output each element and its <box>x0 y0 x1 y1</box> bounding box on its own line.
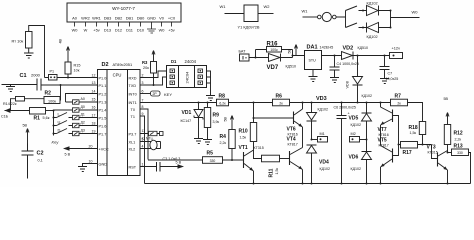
svg-text:КТ817: КТ817 <box>379 143 389 147</box>
wire row16 <box>54 109 98 111</box>
svg-text:P1.3: P1.3 <box>99 101 107 105</box>
svg-text:Key: Key <box>52 140 60 145</box>
wire TXD to EEPROM <box>140 77 167 85</box>
wire VT3 collector to R13 to rail <box>448 153 471 184</box>
resistor R15 <box>65 62 71 74</box>
svg-text:VD6: VD6 <box>349 155 359 161</box>
wire VT2 base <box>254 117 294 119</box>
svg-text:C1: C1 <box>20 73 27 79</box>
wire R14 left down to R1 line <box>11 99 16 111</box>
svg-text:RXD: RXD <box>129 77 137 81</box>
terminal M2 <box>350 137 360 143</box>
wire W1 to sensor <box>303 16 318 18</box>
svg-text:18: 18 <box>92 122 96 126</box>
svg-text:R6: R6 <box>276 94 283 100</box>
wire VT1 emitter to rail <box>253 171 255 184</box>
svg-text:КТ816: КТ816 <box>379 133 389 137</box>
svg-text:8: 8 <box>142 105 144 109</box>
svg-text:5В: 5В <box>288 48 292 53</box>
svg-text:1,5к: 1,5к <box>275 168 279 175</box>
svg-text:КД102: КД102 <box>367 2 378 6</box>
svg-text:P1.5: P1.5 <box>99 117 107 121</box>
svg-text:VD8: VD8 <box>346 81 350 88</box>
svg-text:С1Б: С1Б <box>1 115 9 119</box>
svg-text:DB3: DB3 <box>104 16 112 21</box>
svg-text:R4: R4 <box>220 134 227 140</box>
resistor R3 <box>151 62 157 74</box>
DA1 ground <box>309 70 318 82</box>
wire VT1 collector to R11 <box>254 150 262 159</box>
wire R2 right up to line13 <box>59 85 62 100</box>
capacitor C7 <box>380 56 390 84</box>
svg-text:P1.7: P1.7 <box>99 133 107 137</box>
resistor R16 <box>267 47 282 53</box>
wire EEPROM right to ground <box>206 71 215 101</box>
diode box row18 <box>73 123 80 127</box>
svg-text:КД102: КД102 <box>351 123 362 127</box>
svg-text:2к: 2к <box>397 102 401 106</box>
switch D <box>54 129 98 134</box>
svg-text:TXD: TXD <box>129 84 137 88</box>
svg-text:VD7: VD7 <box>267 65 279 71</box>
svg-text:КД102: КД102 <box>362 94 373 98</box>
svg-text:R11: R11 <box>269 168 275 177</box>
diode VD8 <box>353 56 363 103</box>
wire RXD to EEPROM <box>140 71 167 78</box>
svg-text:T1: T1 <box>131 115 135 119</box>
motor symbol M <box>318 12 337 21</box>
MCU D2 box <box>98 70 141 176</box>
svg-text:INT0: INT0 <box>129 93 137 97</box>
svg-text:P1.2: P1.2 <box>99 93 107 97</box>
svg-text:D13: D13 <box>104 28 111 33</box>
svg-text:6,2к: 6,2к <box>219 102 226 106</box>
svg-text:R17: R17 <box>403 150 412 156</box>
svg-text:2: 2 <box>142 74 144 78</box>
junction line12/R15 <box>67 77 69 79</box>
wire C1 left to ground <box>2 85 38 92</box>
svg-text:19: 19 <box>92 130 96 134</box>
svg-text:10: 10 <box>89 160 93 164</box>
wire Rт top to line12 <box>29 26 45 78</box>
svg-text:9: 9 <box>142 112 144 116</box>
svg-text:SТU: SТU <box>309 59 317 63</box>
svg-text:+C0: +C0 <box>168 16 176 21</box>
svg-text:24C04: 24C04 <box>185 71 190 84</box>
resistor R2 <box>44 97 60 104</box>
svg-text:R7: R7 <box>395 94 402 100</box>
svg-text:5 В: 5 В <box>176 161 182 165</box>
capacitor C2 <box>22 144 34 179</box>
svg-text:1,5к: 1,5к <box>240 136 247 140</box>
svg-text:P1.0: P1.0 <box>99 77 107 81</box>
svg-text:2к: 2к <box>279 102 283 106</box>
svg-text:4: 4 <box>142 145 144 149</box>
svg-text:WR2: WR2 <box>81 16 90 21</box>
wire R5 to VT1 base <box>223 159 244 161</box>
svg-text:DA1: DA1 <box>307 45 318 51</box>
svg-text:VD3: VD3 <box>316 96 327 102</box>
svg-text:R1: R1 <box>34 116 41 122</box>
svg-text:D1: D1 <box>171 59 177 64</box>
svg-text:D11: D11 <box>126 28 133 33</box>
svg-text:P1.4: P1.4 <box>99 109 107 113</box>
svg-text:6: 6 <box>142 90 144 94</box>
svg-text:XL2: XL2 <box>129 148 136 152</box>
svg-text:10,0х25: 10,0х25 <box>386 77 399 81</box>
switch L <box>54 113 98 118</box>
svg-text:KEY: KEY <box>164 92 172 97</box>
wire R14 to R2 <box>25 98 45 100</box>
svg-text:R8: R8 <box>219 94 226 100</box>
svg-text:GND: GND <box>147 16 156 21</box>
svg-text:КД510: КД510 <box>358 46 369 50</box>
arrow 5B (regulator input) <box>295 45 298 56</box>
svg-text:VD2: VD2 <box>343 46 354 52</box>
svg-text:D10: D10 <box>137 28 145 33</box>
wire DA1 output <box>322 55 390 57</box>
svg-text:DB1: DB1 <box>126 16 134 21</box>
wire line12 <box>45 77 98 79</box>
arrow 5B (supply) left column <box>26 129 29 144</box>
wire R3 bottom to TXD line <box>153 73 155 85</box>
svg-text:20к: 20к <box>143 66 149 70</box>
wire R1 to key bus <box>46 110 54 112</box>
jumper P1 <box>49 75 58 81</box>
resistor R10 <box>250 123 256 142</box>
svg-text:100к: 100к <box>270 48 278 52</box>
svg-text:10к: 10к <box>74 69 80 73</box>
switch S1 (top) <box>346 6 364 11</box>
junction line13 <box>60 84 62 86</box>
EEPROM D1 box <box>167 66 207 88</box>
svg-text:2,2к: 2,2к <box>455 138 462 142</box>
wire W1 to Y1 <box>225 13 245 15</box>
diode VD6 <box>362 140 372 184</box>
capacitor C3 <box>157 162 161 172</box>
svg-text:4В: 4В <box>59 38 63 43</box>
crystal Y1 box <box>244 5 258 22</box>
diode box row19 <box>73 131 80 135</box>
diode КД102 (top, right-pointing) <box>364 6 386 16</box>
connector +12v <box>390 53 403 59</box>
transistor VT upper right <box>392 110 394 123</box>
svg-text:WR1: WR1 <box>92 16 101 21</box>
terminal M1 <box>318 137 328 143</box>
svg-text:13: 13 <box>92 81 96 85</box>
svg-text:Y1 КД0972В: Y1 КД0972В <box>238 25 260 30</box>
wire line14 <box>66 94 98 103</box>
wire R11 to stage base <box>280 158 290 160</box>
svg-text:VD4: VD4 <box>319 160 329 166</box>
wire VT4 emitter to rail <box>302 170 304 184</box>
svg-text:D2: D2 <box>102 62 109 68</box>
svg-text:Д1: Д1 <box>81 113 85 117</box>
svg-text:Д2: Д2 <box>81 121 85 125</box>
svg-text:VT1: VT1 <box>239 145 248 151</box>
wire VT2 emitter to output stage <box>302 127 304 148</box>
crystal ZQ wires <box>140 142 161 149</box>
resistor R18 <box>419 122 425 135</box>
svg-text:R5: R5 <box>207 151 214 157</box>
resistor R6 <box>273 99 290 106</box>
svg-text:КД102: КД102 <box>318 108 329 112</box>
svg-text:КТ315: КТ315 <box>254 146 264 150</box>
svg-text:16: 16 <box>92 106 96 110</box>
wire VT2 collector to rail <box>302 103 304 110</box>
junction dots before diodes <box>362 10 364 29</box>
wire C1 right / line13 <box>41 84 98 86</box>
svg-text:С7: С7 <box>388 72 393 76</box>
zener VD1 <box>194 103 203 144</box>
svg-text:R16: R16 <box>267 42 279 48</box>
svg-text:P1.1: P1.1 <box>99 84 107 88</box>
transistor VT6 VT4 (output pair) <box>289 151 291 165</box>
wire row15 <box>66 101 98 103</box>
svg-text:R9: R9 <box>213 113 220 119</box>
svg-text:5В: 5В <box>23 124 28 128</box>
svg-text:VD5: VD5 <box>349 116 359 122</box>
wire INT1 rail <box>140 103 423 116</box>
diode VD2 <box>342 52 354 60</box>
svg-text:+5v: +5v <box>168 28 174 33</box>
svg-text:P3.7: P3.7 <box>129 133 137 137</box>
capacitor C1 <box>37 79 41 91</box>
diode VD4 <box>307 145 317 184</box>
off-page arrow С1Б <box>5 110 30 112</box>
transistor VT1 <box>243 152 245 168</box>
wire INT0 to KEY <box>140 93 151 95</box>
svg-text:W1: W1 <box>302 9 309 14</box>
wire RST row with arrow 5B <box>140 166 183 168</box>
wire T1 drop <box>140 116 145 184</box>
resistor R12 <box>444 125 450 145</box>
svg-text:W0: W0 <box>72 28 79 33</box>
svg-text:R15: R15 <box>74 64 81 68</box>
svg-text:WY-1077-7: WY-1077-7 <box>112 6 135 11</box>
EEPROM pin squares <box>170 69 203 85</box>
key bus <box>53 110 55 136</box>
switch U <box>54 121 98 126</box>
svg-text:GND: GND <box>99 163 108 167</box>
svg-text:AT89c2051: AT89c2051 <box>113 62 133 67</box>
wire VCC pin20 with arrow 5B <box>65 148 98 150</box>
connector KEY <box>151 91 161 96</box>
svg-text:Rт 10к: Rт 10к <box>12 39 24 44</box>
svg-text:17: 17 <box>92 114 96 118</box>
display module WY-1077-7 box <box>67 3 181 22</box>
wire T0 to R5 <box>148 159 203 161</box>
svg-text:М2: М2 <box>351 132 356 136</box>
capacitor C4 <box>330 56 340 83</box>
capacitor C6 <box>337 103 347 184</box>
resistor R14 <box>16 97 25 102</box>
svg-text:КТ817: КТ817 <box>288 142 298 146</box>
svg-text:КД102: КД102 <box>351 167 362 171</box>
svg-text:5 В: 5 В <box>65 153 71 157</box>
resistor R7 <box>391 99 408 106</box>
svg-text:W0: W0 <box>412 10 419 15</box>
regulator DA1 <box>305 51 322 70</box>
svg-text:A0: A0 <box>72 16 78 21</box>
svg-text:142ЕН5: 142ЕН5 <box>320 46 334 50</box>
svg-text:А0: А0 <box>81 97 85 101</box>
svg-text:М1: М1 <box>320 132 325 136</box>
svg-text:W0: W0 <box>159 28 166 33</box>
svg-text:Д3: Д3 <box>81 129 85 133</box>
svg-text:24c04: 24c04 <box>185 59 197 64</box>
svg-text:7: 7 <box>142 99 144 103</box>
svg-text:C2: C2 <box>37 151 44 157</box>
switch S2 (bottom) <box>346 23 364 28</box>
svg-text:V0: V0 <box>159 16 165 21</box>
resistor R17 <box>401 142 418 149</box>
svg-text:1,5к: 1,5к <box>410 131 417 135</box>
svg-text:КД510: КД510 <box>286 65 297 69</box>
battery БАТ <box>240 54 250 61</box>
svg-text:3,9к: 3,9к <box>213 120 220 124</box>
svg-text:+VCC: +VCC <box>99 148 109 152</box>
svg-text:20: 20 <box>89 145 93 149</box>
transistor VT3 <box>437 153 439 167</box>
svg-text:D: D <box>58 128 61 133</box>
svg-text:P1.6: P1.6 <box>99 125 107 129</box>
svg-text:1: 1 <box>142 163 144 167</box>
svg-text:0,1: 0,1 <box>38 159 43 163</box>
svg-text:12: 12 <box>92 74 96 78</box>
resistor R1 <box>30 108 46 115</box>
wire T0 drop <box>140 109 148 160</box>
display ground <box>147 27 156 34</box>
transistor VT7 VT5 (output pair right) <box>392 149 394 163</box>
wire VT3 emitter to rail <box>447 170 449 184</box>
svg-text:15: 15 <box>92 98 96 102</box>
svg-text:КД102: КД102 <box>367 35 378 39</box>
svg-text:14: 14 <box>92 90 96 94</box>
wire GND pin10 to ground <box>78 164 98 172</box>
wire R3 top arrow 5B <box>152 51 155 62</box>
svg-text:U: U <box>58 120 61 125</box>
diode box row15 <box>73 100 80 104</box>
svg-text:W2: W2 <box>264 4 271 9</box>
svg-text:R10: R10 <box>239 129 248 135</box>
svg-text:100к: 100к <box>48 99 56 103</box>
svg-text:T0: T0 <box>131 108 135 112</box>
resistor R8 <box>217 99 229 106</box>
svg-text:330: 330 <box>457 151 463 155</box>
svg-text:R14 22к: R14 22к <box>3 102 17 106</box>
svg-text:2,2к: 2,2к <box>220 141 227 145</box>
resistor R11 <box>262 155 280 162</box>
wire BAT to node <box>249 50 305 58</box>
diode box row16 <box>73 108 80 112</box>
svg-text:DB0: DB0 <box>137 16 145 21</box>
svg-text:CPU: CPU <box>113 73 122 78</box>
resistor Rт <box>26 32 33 49</box>
transistor VT2 <box>293 112 295 125</box>
svg-text:INT1: INT1 <box>129 101 137 105</box>
svg-text:+12v: +12v <box>392 46 401 51</box>
svg-text:5,6к: 5,6к <box>43 116 50 120</box>
resistor R9 <box>204 108 210 128</box>
svg-text:КС147: КС147 <box>181 119 192 123</box>
svg-text:БАТ: БАТ <box>239 50 247 54</box>
diode VD3 <box>307 103 317 140</box>
svg-text:КТ315: КТ315 <box>428 150 438 154</box>
ground under Rт <box>24 48 34 58</box>
svg-text:2Р: 2Р <box>153 92 158 96</box>
crystal ZQ <box>150 140 157 150</box>
svg-text:W: W <box>84 28 88 33</box>
display pin ticks <box>75 22 172 27</box>
bottom rail <box>145 183 471 185</box>
svg-text:5В: 5В <box>444 97 449 101</box>
svg-text:R3: R3 <box>142 60 148 65</box>
svg-text:2000: 2000 <box>31 73 41 78</box>
resistor R5 <box>203 157 223 164</box>
wire P3.7 row <box>140 133 160 135</box>
svg-text:11 МГц: 11 МГц <box>142 137 153 141</box>
svg-text:3: 3 <box>142 81 144 85</box>
wire bases to R17 <box>393 116 401 156</box>
diode КД102 (bottom, left-pointing) <box>364 23 386 33</box>
svg-text:330: 330 <box>210 159 216 163</box>
diode box row17 <box>73 115 80 119</box>
svg-text:RST: RST <box>129 166 137 170</box>
svg-text:VD1: VD1 <box>182 110 192 116</box>
svg-text:С6 2000,0х25: С6 2000,0х25 <box>334 106 356 110</box>
svg-text:XL1: XL1 <box>129 141 136 145</box>
svg-text:DB2: DB2 <box>115 16 123 21</box>
svg-text:W1: W1 <box>220 4 227 9</box>
svg-text:+5v: +5v <box>93 28 99 33</box>
resistor R4 <box>229 130 235 149</box>
diode VD5 <box>362 103 372 140</box>
diode VD7 <box>269 54 281 62</box>
wire Y1 to W2 <box>258 13 274 15</box>
svg-text:Д0: Д0 <box>81 105 85 109</box>
wire R15 to line12 and arrow 4B <box>67 47 70 78</box>
svg-text:D12: D12 <box>115 28 122 33</box>
svg-text:С4 1000,0х25: С4 1000,0х25 <box>337 62 359 66</box>
svg-text:R12: R12 <box>454 131 463 137</box>
wire motor to switches <box>336 11 345 28</box>
svg-text:P1: P1 <box>50 70 55 74</box>
svg-text:КД102: КД102 <box>320 167 331 171</box>
svg-text:R2: R2 <box>45 91 52 97</box>
jumper box P3.7 <box>149 131 158 135</box>
svg-text:5В: 5В <box>224 116 228 121</box>
junction column and output W0 <box>386 11 420 28</box>
